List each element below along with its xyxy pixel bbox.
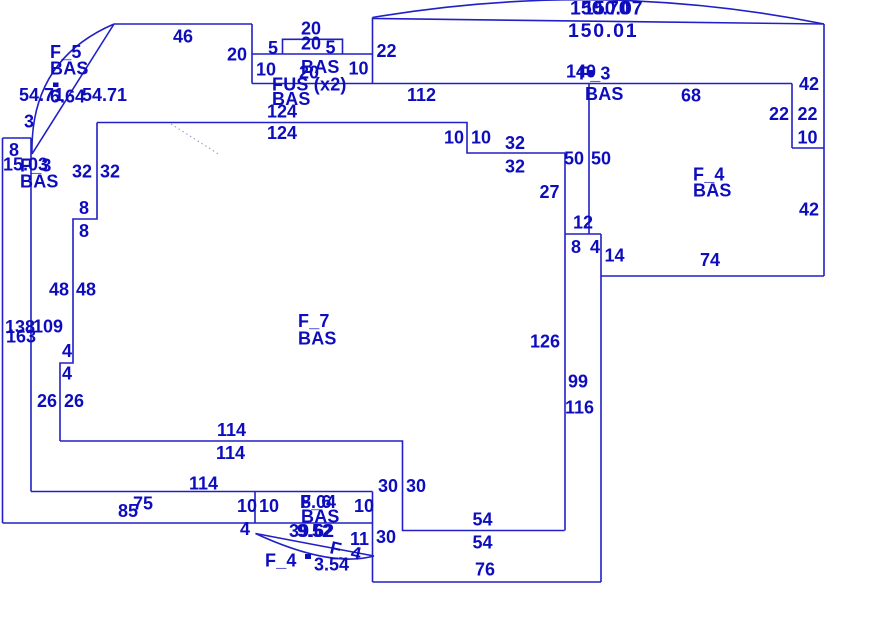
svg-text:150.01: 150.01: [568, 20, 638, 42]
wire left outer vertical: [2, 138, 4, 523]
svg-text:12: 12: [573, 213, 593, 233]
svg-text:4: 4: [62, 341, 72, 361]
svg-text:27: 27: [540, 182, 560, 202]
svg-text:46: 46: [173, 27, 193, 47]
wire step horizontal y148: [792, 147, 824, 149]
wire bottom line y491: [31, 491, 373, 493]
svg-text:BAS: BAS: [585, 84, 624, 104]
svg-text:20: 20: [301, 34, 321, 54]
svg-text:10: 10: [798, 128, 818, 148]
wire dotted diagonal: [171, 124, 220, 155]
svg-text:42: 42: [799, 74, 819, 94]
svg-text:5: 5: [326, 38, 336, 58]
svg-text:48: 48: [76, 280, 96, 300]
svg-text:54.71: 54.71: [82, 85, 127, 105]
wire bottom edge y582: [373, 581, 602, 583]
svg-text:4: 4: [62, 364, 72, 384]
svg-text:99: 99: [568, 372, 588, 392]
wire ledge y54: [252, 53, 373, 55]
wire F5 arc edge: [32, 24, 114, 154]
svg-text:F_3: F_3: [579, 64, 611, 84]
wire F5 top edge: [114, 23, 252, 25]
svg-text:48: 48: [49, 280, 69, 300]
svg-text:30: 30: [378, 476, 398, 496]
svg-text:6.64: 6.64: [50, 87, 85, 107]
svg-text:163: 163: [6, 327, 36, 347]
svg-text:124: 124: [267, 123, 297, 143]
wire right edge: [823, 24, 825, 276]
svg-text:3: 3: [24, 112, 34, 132]
svg-text:150.07: 150.07: [583, 0, 643, 20]
wire FUS right vertical: [372, 18, 374, 84]
svg-text:54: 54: [473, 510, 493, 530]
wire F4 bottom edge: [601, 275, 824, 277]
wire sliver arc edge: [256, 534, 375, 560]
node marker F5: [53, 83, 59, 88]
svg-text:22: 22: [798, 104, 818, 124]
wire long vertical x564: [564, 153, 566, 531]
wire FUS left vertical: [251, 24, 253, 84]
svg-text:20: 20: [227, 45, 247, 65]
wire F5 straight slant edge: [32, 24, 114, 154]
svg-text:10: 10: [237, 496, 257, 516]
svg-text:68: 68: [681, 86, 701, 106]
wire left inner vertical: [30, 138, 32, 492]
wire segment y234: [565, 233, 601, 235]
svg-text:22: 22: [769, 104, 789, 124]
node marker F4 bottom: [305, 554, 311, 559]
svg-text:BAS: BAS: [693, 181, 732, 201]
svg-text:126: 126: [530, 332, 560, 352]
wire bottom line y523: [3, 522, 373, 524]
svg-text:50: 50: [591, 149, 611, 169]
wire vertical x372: [372, 492, 374, 583]
svg-text:116: 116: [565, 398, 594, 418]
wire step vertical x792: [791, 84, 793, 149]
wire F7 left stepped edge: [60, 123, 97, 442]
svg-text:14: 14: [605, 246, 625, 266]
node marker F3: [588, 70, 594, 76]
svg-text:8: 8: [79, 221, 89, 241]
svg-text:4: 4: [590, 237, 600, 257]
wire F7 top edge: [97, 123, 565, 154]
svg-text:76: 76: [475, 560, 495, 580]
svg-text:32: 32: [72, 162, 92, 182]
svg-text:32: 32: [505, 133, 525, 153]
svg-text:10: 10: [471, 128, 491, 148]
svg-text:32: 32: [505, 157, 525, 177]
svg-text:42: 42: [799, 200, 819, 220]
svg-text:9.52: 9.52: [297, 521, 332, 541]
svg-text:BAS: BAS: [298, 329, 337, 349]
svg-text:32: 32: [100, 162, 120, 182]
wire long vertical x600: [600, 234, 602, 582]
svg-text:50: 50: [564, 149, 584, 169]
svg-text:BAS: BAS: [50, 59, 89, 79]
wire top chord: [373, 19, 825, 25]
svg-text:30: 30: [376, 527, 396, 547]
svg-text:10: 10: [259, 496, 279, 516]
svg-text:8: 8: [79, 198, 89, 218]
svg-text:85: 85: [118, 501, 138, 521]
svg-text:114: 114: [216, 443, 245, 463]
svg-text:5: 5: [268, 38, 278, 58]
svg-text:10: 10: [444, 128, 464, 148]
svg-text:74: 74: [700, 250, 720, 270]
svg-text:F_4: F_4: [265, 551, 297, 571]
wire left strip top: [3, 137, 32, 139]
wire tick x255: [254, 492, 256, 524]
svg-text:54: 54: [473, 533, 493, 553]
svg-text:124: 124: [267, 102, 297, 122]
wire partition y83: [252, 83, 792, 85]
svg-text:10: 10: [354, 496, 374, 516]
svg-text:3.54: 3.54: [314, 555, 349, 575]
svg-text:109: 109: [33, 317, 63, 337]
svg-text:10: 10: [349, 59, 369, 79]
svg-text:26: 26: [64, 391, 84, 411]
svg-text:8: 8: [571, 237, 581, 257]
svg-text:114: 114: [217, 420, 246, 440]
svg-text:4: 4: [240, 519, 250, 539]
svg-text:BAS: BAS: [20, 172, 59, 192]
svg-text:22: 22: [377, 41, 397, 61]
svg-text:26: 26: [37, 391, 57, 411]
wire top arc: [373, 0, 825, 24]
svg-text:114: 114: [189, 474, 218, 494]
wire sliver straight edge: [256, 534, 375, 557]
wire F3 divider x589: [588, 84, 590, 235]
wire F7 bottom edge: [60, 441, 565, 531]
wire small box 20x5: [283, 39, 343, 54]
svg-text:112: 112: [407, 85, 436, 105]
svg-text:30: 30: [406, 476, 426, 496]
